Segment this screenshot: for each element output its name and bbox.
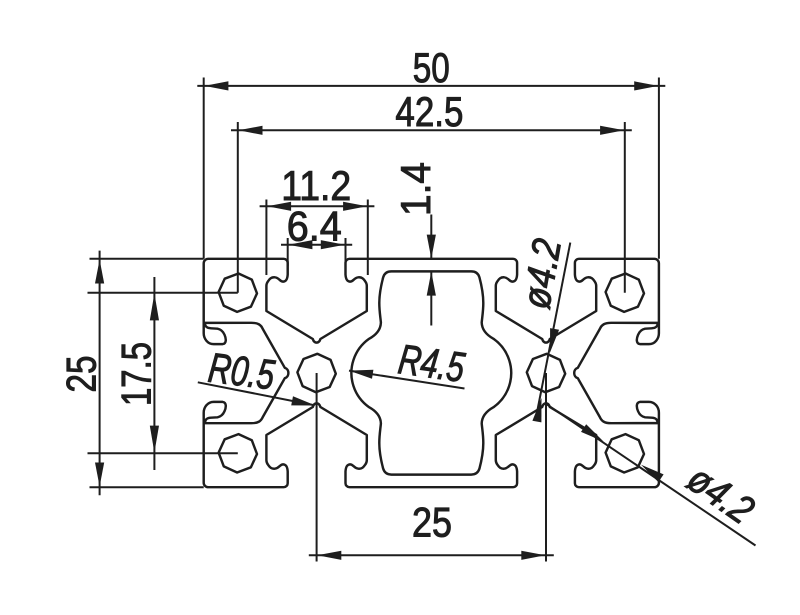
leader diameter 4.2 bottom (546, 404, 762, 546)
dimension 11.2 (260, 162, 375, 275)
profile outer outline with six T-slots (204, 259, 659, 487)
dimension 25 bottom (309, 373, 554, 562)
svg-text:1.4: 1.4 (392, 162, 439, 216)
leader diameter 4.2 top (514, 235, 570, 422)
svg-text:R4.5: R4.5 (396, 335, 468, 391)
dimension 25 left (57, 251, 203, 496)
dimension 17.5 (88, 277, 238, 470)
svg-text:R0.5: R0.5 (206, 344, 278, 399)
central barrel cavity (351, 271, 511, 474)
dimension 42.5 (231, 88, 632, 293)
dimension 6.4 (281, 203, 352, 267)
corner hole bottom-right (606, 434, 644, 472)
svg-text:17.5: 17.5 (112, 342, 159, 406)
leader R4.5 (349, 335, 468, 391)
center hole left (297, 354, 335, 392)
leader R0.5 (198, 344, 316, 406)
svg-text:50: 50 (413, 44, 450, 91)
svg-text:25: 25 (412, 499, 452, 546)
dimension 50 (197, 44, 665, 259)
dimension 1.4 (392, 162, 439, 326)
svg-text:42.5: 42.5 (395, 88, 463, 135)
center hole right (527, 354, 565, 392)
svg-text:25: 25 (57, 356, 104, 393)
corner hole bottom-left (219, 434, 257, 472)
svg-text:6.4: 6.4 (287, 203, 342, 250)
corner hole top-right (606, 274, 644, 312)
corner hole top-left (219, 274, 257, 312)
